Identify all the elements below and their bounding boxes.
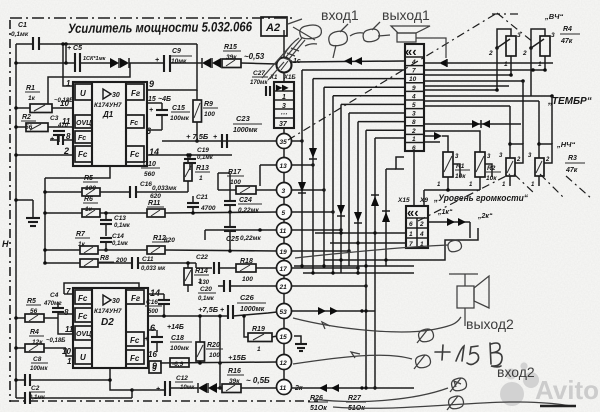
connector pin circle 35 bbox=[277, 134, 292, 149]
svg-text:R5: R5 bbox=[84, 175, 93, 182]
svg-text:3: 3 bbox=[517, 32, 521, 39]
schematic dashed border top bbox=[10, 17, 294, 19]
wire bus circle y212 bbox=[292, 211, 334, 213]
resistor R19 1 bbox=[242, 314, 277, 353]
svg-text:10мк: 10мк bbox=[171, 58, 187, 65]
capacitor C5 bbox=[67, 45, 107, 72]
svg-text:1: 1 bbox=[504, 61, 508, 68]
block designator A2 box bbox=[261, 17, 287, 36]
svg-text:~ 0,5Б: ~ 0,5Б bbox=[246, 376, 270, 385]
resistor R4 12к bbox=[14, 329, 66, 352]
wire row11 bbox=[205, 229, 277, 231]
wire bus circle y268 bbox=[292, 267, 359, 269]
capacitor C21 4700 bbox=[187, 194, 216, 215]
svg-text:С23: С23 bbox=[236, 114, 251, 123]
svg-text:15: 15 bbox=[280, 334, 288, 341]
wire +15Б row to circle 12 bbox=[160, 362, 277, 363]
svg-text:100: 100 bbox=[230, 179, 241, 186]
svg-text:R20: R20 bbox=[207, 342, 220, 349]
svg-text:620: 620 bbox=[150, 193, 161, 200]
svg-text:„Уровень громкости“: „Уровень громкости“ bbox=[433, 193, 528, 204]
svg-text:~0,18Б: ~0,18Б bbox=[46, 338, 66, 344]
svg-text:выход2: выход2 bbox=[466, 316, 514, 332]
wire D2 bottom bbox=[109, 368, 111, 380]
wire X15 right with arrows bbox=[428, 221, 470, 223]
svg-text:Fс: Fс bbox=[78, 294, 88, 303]
svg-text:1: 1 bbox=[538, 61, 542, 68]
capacitor C2 0,1мк bbox=[16, 385, 132, 404]
Avito watermark bbox=[500, 362, 599, 406]
pen connecting curves bbox=[293, 240, 575, 408]
svg-text:3: 3 bbox=[551, 32, 555, 39]
svg-text:Fс: Fс bbox=[78, 135, 86, 142]
label 9 box bbox=[149, 361, 161, 373]
right bus horizontals bbox=[424, 62, 440, 64]
wire pin2 bbox=[16, 154, 73, 156]
svg-text:0,22мк: 0,22мк bbox=[240, 235, 261, 242]
svg-text:U: U bbox=[80, 353, 86, 362]
capacitor C24 0,22мк bbox=[224, 193, 262, 214]
svg-text:9: 9 bbox=[412, 85, 416, 92]
wire 1c to connector bbox=[292, 61, 405, 62]
gang dash-dot lower bbox=[418, 174, 510, 221]
svg-text:560: 560 bbox=[144, 171, 155, 178]
svg-text:R13: R13 bbox=[196, 165, 209, 172]
wire bus circle y165 bbox=[292, 164, 314, 166]
wire bus circle y251 bbox=[292, 250, 350, 252]
svg-text:R1: R1 bbox=[26, 85, 35, 92]
svg-text:2: 2 bbox=[522, 50, 527, 57]
svg-text:10к: 10к bbox=[486, 175, 497, 182]
svg-text:2: 2 bbox=[411, 128, 416, 135]
svg-text:0,033мк: 0,033мк bbox=[152, 185, 177, 192]
wire bus circle y190 bbox=[292, 189, 325, 191]
svg-text:13: 13 bbox=[280, 163, 288, 170]
svg-text:4: 4 bbox=[419, 231, 424, 238]
svg-text:1000мк: 1000мк bbox=[240, 306, 265, 313]
svg-text:11: 11 bbox=[65, 325, 74, 334]
svg-text:500: 500 bbox=[148, 309, 159, 315]
svg-text:47к: 47к bbox=[565, 167, 578, 174]
svg-text:8: 8 bbox=[412, 119, 416, 126]
svg-text:С25: С25 bbox=[226, 236, 239, 243]
svg-text:„НЧ“: „НЧ“ bbox=[556, 140, 575, 149]
svg-text:0,033 мк: 0,033 мк bbox=[141, 266, 166, 272]
resistor R7 1к bbox=[43, 231, 147, 254]
svg-text:R9: R9 bbox=[204, 101, 213, 108]
svg-text:+7,5Б: +7,5Б bbox=[198, 305, 219, 314]
svg-text:R3: R3 bbox=[568, 155, 577, 162]
svg-text:8: 8 bbox=[64, 308, 69, 317]
svg-text:39к: 39к bbox=[226, 54, 237, 61]
svg-text:ОVЦ: ОVЦ bbox=[76, 120, 91, 127]
svg-text:6: 6 bbox=[409, 221, 413, 228]
wire hook below connector bbox=[396, 157, 404, 169]
wire vertical x375 lower bbox=[374, 311, 376, 388]
svg-text:2: 2 bbox=[516, 157, 521, 163]
svg-text:21: 21 bbox=[279, 284, 288, 291]
svg-text:-6,9: -6,9 bbox=[172, 361, 184, 368]
svg-text:100мк: 100мк bbox=[170, 115, 190, 122]
resistor R12 820 bbox=[147, 235, 277, 254]
pen plug sketches right bbox=[414, 329, 467, 410]
capacitor C10 560 label bbox=[141, 161, 160, 178]
connector pin circle 19 bbox=[277, 244, 292, 259]
svg-text:R8: R8 bbox=[100, 255, 109, 262]
diode pair 2 bbox=[202, 58, 221, 68]
connector X15/X9 bbox=[406, 205, 428, 248]
resistor R2 56 bbox=[14, 114, 73, 132]
svg-text:D2: D2 bbox=[101, 317, 114, 328]
resistor R1 1к bbox=[14, 85, 73, 113]
svg-text:+: + bbox=[155, 57, 159, 64]
capacitor C20 bbox=[198, 280, 277, 302]
potentiometer R3b (НЧ) bbox=[528, 101, 552, 188]
resistor R6 1к bbox=[43, 196, 147, 217]
pen +15В bbox=[435, 343, 502, 367]
wire bottom row y388 bbox=[292, 387, 415, 389]
svg-text:R11: R11 bbox=[148, 200, 160, 207]
svg-text:С4: С4 bbox=[50, 292, 59, 299]
connector pin circle 15 bbox=[277, 329, 292, 344]
wire pin1 stub drop x375 bbox=[375, 137, 404, 139]
connector pin circle 17 bbox=[277, 261, 292, 276]
svg-text:Fг: Fг bbox=[131, 89, 141, 98]
svg-text:11: 11 bbox=[62, 117, 71, 126]
svg-text:100: 100 bbox=[242, 276, 253, 283]
svg-text:0,1мк: 0,1мк bbox=[197, 155, 214, 161]
resistor R5b 56 bbox=[14, 298, 58, 322]
svg-text:6: 6 bbox=[412, 145, 416, 152]
pen plug sketches top bbox=[262, 22, 390, 80]
resistor R17 100 bbox=[218, 169, 277, 194]
svg-text:100мк: 100мк bbox=[30, 366, 48, 372]
svg-text:2: 2 bbox=[419, 221, 424, 228]
column spine bbox=[283, 128, 285, 394]
capacitor C9 10мк bbox=[155, 48, 192, 72]
wire above D1 bbox=[48, 63, 130, 104]
resistor R18 100 bbox=[236, 258, 277, 283]
svg-text:16: 16 bbox=[148, 350, 157, 359]
svg-text:R14: R14 bbox=[195, 268, 208, 275]
svg-text:2: 2 bbox=[63, 146, 69, 156]
capacitor C3 470 bbox=[50, 115, 69, 142]
svg-text:17: 17 bbox=[280, 266, 288, 273]
svg-text:+: + bbox=[149, 107, 153, 114]
svg-text:Fс: Fс bbox=[78, 150, 88, 159]
labels R26 R27 bbox=[308, 395, 328, 412]
svg-text:4: 4 bbox=[411, 93, 416, 100]
schematic dashed border left bbox=[9, 20, 11, 402]
svg-text:С15: С15 bbox=[172, 105, 185, 112]
wire bus circle y286 bbox=[292, 285, 367, 287]
wire: C5 tap bbox=[65, 44, 67, 63]
svg-text:100мк: 100мк bbox=[170, 345, 190, 352]
svg-text:1к: 1к bbox=[28, 95, 36, 102]
svg-text:К174УН7: К174УН7 bbox=[94, 102, 122, 109]
wire pin1 bbox=[63, 44, 73, 86]
connector pin circle 5 bbox=[277, 205, 292, 220]
connector pin circle 3 bbox=[277, 183, 292, 198]
svg-text:1: 1 bbox=[257, 346, 261, 353]
connector pin circle 53 bbox=[277, 304, 292, 319]
svg-text:~4Б: ~4Б bbox=[158, 96, 171, 103]
capacitor C12 10мк bbox=[132, 375, 198, 396]
svg-text:0,1мк: 0,1мк bbox=[198, 296, 215, 302]
gang roof dash bbox=[492, 13, 518, 15]
pen speaker выход1 bbox=[391, 26, 446, 58]
wire pin14 row bbox=[147, 154, 232, 156]
connector circle 1c bbox=[277, 30, 301, 82]
capacitor C1 bbox=[11, 22, 39, 50]
svg-text:5: 5 bbox=[282, 210, 286, 217]
svg-text:R4: R4 bbox=[30, 329, 39, 336]
svg-text:14: 14 bbox=[150, 288, 160, 298]
svg-text:Fс: Fс bbox=[78, 312, 88, 321]
resistor R13 1 (vertical) bbox=[184, 153, 210, 182]
svg-text:Avito: Avito bbox=[535, 375, 599, 405]
svg-text:▶▶: ▶▶ bbox=[275, 83, 289, 92]
svg-text:С22: С22 bbox=[196, 254, 208, 261]
wire: top feedback y44 bbox=[16, 43, 33, 45]
svg-text:0,1мк: 0,1мк bbox=[114, 223, 131, 229]
wire: mid-left vertical rail bbox=[44, 178, 46, 263]
svg-text:С2: С2 bbox=[31, 385, 40, 392]
svg-text:R1: R1 bbox=[456, 163, 465, 170]
svg-text:+: + bbox=[144, 336, 148, 343]
svg-text:9: 9 bbox=[152, 364, 157, 373]
capacitor C27 bbox=[250, 70, 270, 96]
capacitor C15 100мк bbox=[147, 103, 190, 130]
svg-text:⋯: ⋯ bbox=[280, 111, 288, 118]
svg-text:11: 11 bbox=[280, 228, 287, 235]
op-amp IC D2 K174UN7 bbox=[73, 288, 148, 368]
arrows on bus verticals bbox=[298, 182, 306, 193]
connector pin circle 13 bbox=[277, 158, 292, 173]
svg-text:1: 1 bbox=[409, 231, 413, 238]
vertical x220 bbox=[219, 316, 221, 388]
svg-text:С20: С20 bbox=[200, 286, 212, 293]
svg-text:С16: С16 bbox=[146, 299, 158, 306]
svg-text:Fс: Fс bbox=[130, 336, 140, 345]
capacitor C19 0,1мк bbox=[184, 147, 214, 170]
wire horizontals y266 y273 bbox=[294, 265, 414, 267]
label R3 47к bbox=[565, 155, 585, 174]
svg-text:вход1: вход1 bbox=[321, 7, 359, 23]
svg-text:1: 1 bbox=[198, 278, 202, 285]
svg-text:С12: С12 bbox=[176, 375, 188, 382]
svg-text:R2: R2 bbox=[22, 114, 31, 121]
capacitor at pin8 bbox=[50, 134, 73, 145]
pen bottom-right bar bbox=[540, 405, 576, 407]
potentiometer R4b (ВЧ) bbox=[522, 29, 555, 96]
resistor R15 39к bbox=[222, 44, 241, 68]
svg-text:3: 3 bbox=[282, 188, 286, 195]
svg-text:R4: R4 bbox=[563, 26, 572, 33]
wire bus circle y141 bbox=[292, 140, 303, 142]
svg-text:„ТЕМБР“: „ТЕМБР“ bbox=[547, 96, 592, 107]
capacitor C4 470мг bbox=[43, 292, 73, 318]
svg-text:+15Б: +15Б bbox=[228, 353, 247, 362]
connector pin circle 12 bbox=[277, 355, 292, 370]
ground at circle 15 bbox=[294, 336, 307, 351]
diode pair bottom bbox=[198, 383, 217, 393]
lower horizontals bbox=[424, 123, 521, 125]
svg-text:С10: С10 bbox=[143, 161, 156, 168]
wire drop x386 bbox=[385, 169, 387, 266]
capacitor C13 0,1мк bbox=[100, 211, 131, 236]
svg-text:8: 8 bbox=[66, 132, 71, 141]
svg-text:R5: R5 bbox=[27, 298, 36, 305]
connector pin circle 11 bbox=[277, 223, 292, 238]
svg-text:0,22мк: 0,22мк bbox=[238, 207, 259, 214]
pen speaker выход2 bbox=[449, 274, 489, 326]
svg-text:1: 1 bbox=[67, 357, 72, 366]
svg-text:С11: С11 bbox=[142, 256, 154, 263]
gang dash-dot diagonal bbox=[288, 13, 497, 140]
svg-text:1к: 1к bbox=[78, 241, 86, 248]
svg-text:4700: 4700 bbox=[200, 205, 216, 212]
wire: pin9 feedback vertical bbox=[147, 44, 197, 90]
svg-text:R2: R2 bbox=[487, 165, 496, 172]
svg-text:10: 10 bbox=[60, 99, 69, 108]
svg-text:С14: С14 bbox=[112, 233, 124, 240]
svg-text:выход1: выход1 bbox=[382, 7, 430, 23]
connector X1 box bbox=[269, 75, 296, 128]
svg-text:С24: С24 bbox=[239, 197, 252, 204]
wire lower link right bbox=[324, 228, 478, 260]
svg-text:30: 30 bbox=[112, 298, 120, 305]
svg-text:Д1: Д1 bbox=[102, 110, 114, 119]
label R4 47к bbox=[560, 26, 580, 45]
wire +7,5 row to circle 53 bbox=[148, 315, 228, 317]
resistor R9 100 (vertical) bbox=[193, 90, 218, 141]
wire bus circle y230 bbox=[292, 229, 342, 231]
resistor R8 200 bbox=[43, 255, 132, 267]
svg-text:53: 53 bbox=[280, 309, 288, 316]
svg-text:С9: С9 bbox=[172, 48, 181, 55]
svg-text:19: 19 bbox=[280, 249, 288, 256]
svg-text:1: 1 bbox=[282, 94, 286, 101]
svg-text:R19: R19 bbox=[252, 326, 265, 333]
svg-text:10к: 10к bbox=[455, 173, 466, 180]
resistor R16 39к bbox=[222, 368, 277, 393]
svg-text:Fг: Fг bbox=[131, 294, 141, 303]
svg-text:R26: R26 bbox=[310, 395, 323, 402]
svg-text:0,1мк: 0,1мк bbox=[112, 241, 129, 247]
svg-text:„ВЧ“: „ВЧ“ bbox=[544, 12, 563, 21]
capacitor C26 1000мк bbox=[220, 293, 277, 319]
svg-text:R7: R7 bbox=[76, 231, 86, 238]
svg-text:ОVЦ: ОVЦ bbox=[76, 331, 91, 338]
svg-text:2: 2 bbox=[488, 50, 493, 57]
capacitor C11 0,033мк bbox=[132, 256, 196, 272]
svg-text:А2: А2 bbox=[265, 22, 280, 34]
wire above D2 bbox=[64, 283, 139, 294]
svg-text:С21: С21 bbox=[196, 194, 208, 201]
svg-text:1000мк: 1000мк bbox=[233, 127, 258, 134]
connector pin circle 21 bbox=[277, 279, 292, 294]
potentiometer R1 10к bbox=[437, 152, 470, 190]
svg-text:„2к“: „2к“ bbox=[477, 213, 493, 220]
verticals to НЧ pots bbox=[522, 81, 524, 144]
svg-text:Fс: Fс bbox=[130, 120, 138, 127]
wire circle 53 row bbox=[292, 310, 376, 312]
svg-text:9: 9 bbox=[149, 79, 154, 89]
connector pin circle 11 bbox=[277, 380, 292, 395]
resistor R20 100 vertical bbox=[196, 314, 223, 363]
potentiometer R4a (ВЧ) bbox=[488, 29, 521, 90]
svg-text:100: 100 bbox=[204, 111, 215, 118]
svg-text:51Ок: 51Ок bbox=[310, 405, 327, 412]
svg-text:+14Б: +14Б bbox=[167, 324, 184, 331]
svg-text:1СК*1мк: 1СК*1мк bbox=[83, 56, 107, 62]
svg-text:С3: С3 bbox=[50, 115, 59, 122]
svg-text:100: 100 bbox=[209, 352, 220, 359]
svg-text:R15: R15 bbox=[224, 44, 237, 51]
wire circle13 stub bbox=[260, 164, 277, 166]
svg-text:0,1мк: 0,1мк bbox=[11, 31, 29, 38]
svg-text:С8: С8 bbox=[33, 356, 42, 363]
svg-text:U: U bbox=[80, 89, 86, 98]
capacitor C8 100мк bbox=[14, 356, 110, 386]
svg-text:С26: С26 bbox=[240, 293, 255, 302]
svg-text:30: 30 bbox=[112, 92, 120, 99]
svg-text:С19: С19 bbox=[197, 147, 209, 154]
svg-text:Усилитель мощности 5.032.066: Усилитель мощности 5.032.066 bbox=[68, 19, 253, 36]
op-amp IC D1 K174UN7 bbox=[73, 82, 147, 166]
svg-text:820: 820 bbox=[164, 237, 175, 244]
svg-text:С1: С1 bbox=[18, 22, 27, 29]
svg-text:470мг: 470мг bbox=[43, 301, 62, 307]
svg-text:7: 7 bbox=[412, 68, 416, 75]
wire C23 row to circle 35 bbox=[162, 140, 277, 142]
schematic dashed border bottom bbox=[10, 400, 318, 402]
svg-text:С16: С16 bbox=[140, 181, 152, 188]
svg-text:37: 37 bbox=[279, 121, 288, 128]
resistor R14 1 vertical bbox=[184, 261, 209, 292]
svg-text:1: 1 bbox=[412, 136, 416, 143]
potentiometer R3a (НЧ) bbox=[499, 106, 523, 188]
resistor R5 100 bbox=[43, 175, 130, 196]
capacitor C23 1000мк bbox=[213, 114, 262, 148]
svg-text:Fс: Fс bbox=[130, 354, 140, 363]
svg-text:С13: С13 bbox=[114, 215, 126, 222]
svg-text:К174УН7: К174УН7 bbox=[94, 308, 122, 315]
svg-text:1: 1 bbox=[199, 175, 203, 182]
svg-text:+: + bbox=[220, 307, 224, 314]
svg-text:R16: R16 bbox=[228, 368, 241, 375]
svg-text:+ С5: + С5 bbox=[67, 45, 82, 52]
svg-text:3: 3 bbox=[282, 103, 286, 110]
ground symbol left bbox=[14, 198, 40, 226]
svg-text:С18: С18 bbox=[171, 335, 184, 342]
svg-text:10: 10 bbox=[409, 76, 417, 83]
svg-text:5: 5 bbox=[412, 102, 416, 109]
diode VD pair bbox=[110, 58, 129, 68]
pen line from A2 bbox=[288, 19, 302, 24]
label box -6,9 bbox=[170, 358, 189, 368]
svg-text:+ 7,5Б: + 7,5Б bbox=[186, 132, 209, 141]
wire: left vertical rail bbox=[15, 44, 17, 398]
svg-text:2: 2 bbox=[545, 157, 550, 163]
potentiometer R2 10к bbox=[469, 152, 501, 190]
wire vertical x414 connector to X15 and down bbox=[413, 151, 415, 206]
svg-text:170мк: 170мк bbox=[250, 80, 268, 86]
svg-text:35: 35 bbox=[280, 139, 288, 146]
svg-text:R6: R6 bbox=[84, 196, 93, 203]
resistor R11 620 bbox=[147, 193, 277, 217]
